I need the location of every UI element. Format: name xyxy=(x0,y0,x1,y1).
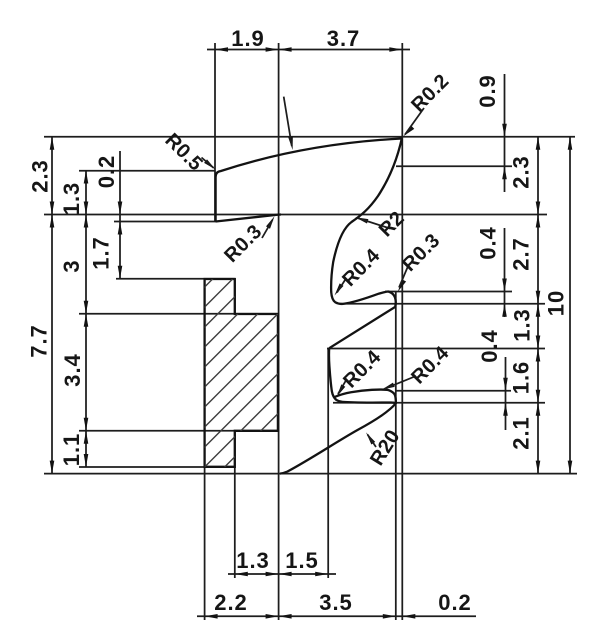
svg-text:1.3: 1.3 xyxy=(236,548,270,573)
svg-text:1.3: 1.3 xyxy=(59,182,84,216)
svg-text:1.5: 1.5 xyxy=(285,548,319,573)
svg-text:3.4: 3.4 xyxy=(60,353,85,387)
svg-text:3: 3 xyxy=(59,259,84,272)
svg-text:2.2: 2.2 xyxy=(214,590,248,615)
svg-text:3.5: 3.5 xyxy=(319,590,353,615)
svg-text:3.7: 3.7 xyxy=(327,26,361,51)
svg-text:2.3: 2.3 xyxy=(509,155,534,189)
svg-text:0.4: 0.4 xyxy=(476,226,501,260)
svg-text:2.1: 2.1 xyxy=(509,416,534,450)
svg-text:0.4: 0.4 xyxy=(477,329,502,363)
svg-text:1.9: 1.9 xyxy=(231,26,265,51)
svg-text:0.2: 0.2 xyxy=(94,155,119,189)
svg-text:10: 10 xyxy=(544,290,569,316)
svg-text:1.7: 1.7 xyxy=(89,236,114,270)
svg-text:1.6: 1.6 xyxy=(509,361,534,395)
svg-text:1.1: 1.1 xyxy=(59,433,84,467)
svg-text:7.7: 7.7 xyxy=(27,324,52,358)
svg-text:2.7: 2.7 xyxy=(509,237,534,271)
svg-text:0.2: 0.2 xyxy=(438,590,472,615)
svg-text:2.3: 2.3 xyxy=(28,159,53,193)
svg-text:0.9: 0.9 xyxy=(475,74,500,108)
svg-text:1.3: 1.3 xyxy=(510,308,535,342)
